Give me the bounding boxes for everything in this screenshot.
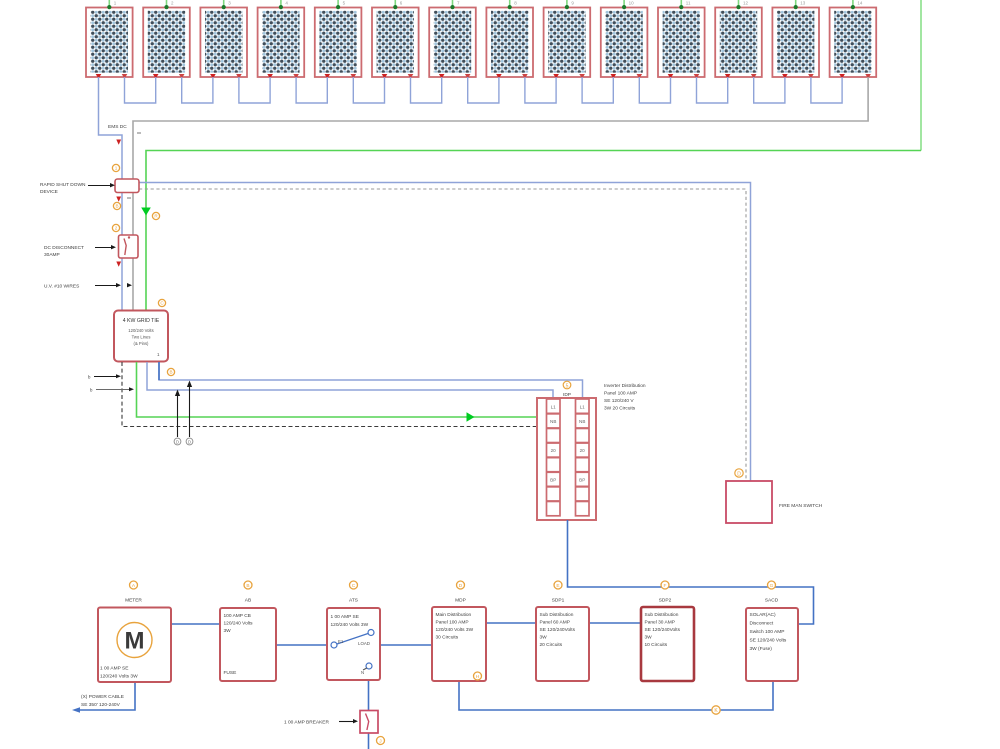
svg-text:(X) POWER CABLE: (X) POWER CABLE xyxy=(81,694,124,700)
wire ATS to breaker xyxy=(368,680,370,749)
node B label above AB xyxy=(244,581,252,589)
node A label above METER xyxy=(130,581,138,589)
wire series link PV13-PV14 xyxy=(811,77,842,103)
ATS transfer switch symbol xyxy=(331,630,374,676)
red flow arrow down xyxy=(116,262,121,267)
black up arrow 1 xyxy=(175,390,180,438)
DC disconnect switch xyxy=(119,235,139,258)
label DC disconnect 30 amp xyxy=(44,245,116,258)
svg-text:2: 2 xyxy=(115,226,118,231)
svg-text:13: 13 xyxy=(800,1,806,6)
svg-text:3W (Fuse): 3W (Fuse) xyxy=(750,646,773,652)
inverter distribution panel IDP xyxy=(537,398,596,520)
svg-text:SE 350' 120-240V: SE 350' 120-240V xyxy=(81,702,121,708)
wire MDP to SDP1 xyxy=(486,622,536,624)
svg-text:AB: AB xyxy=(245,598,251,604)
svg-text:BP: BP xyxy=(550,477,556,482)
solar panel PV10 xyxy=(601,0,648,79)
svg-text:3: 3 xyxy=(228,1,231,6)
svg-text:Panel 60 AMP: Panel 60 AMP xyxy=(540,620,570,626)
svg-text:Sub Distribution: Sub Distribution xyxy=(540,612,574,618)
svg-text:9: 9 xyxy=(571,1,574,6)
node IDP circled xyxy=(563,381,571,389)
svg-text:100 AMP CB: 100 AMP CB xyxy=(224,613,251,619)
wire rapid-shutdown signal blue to fire man switch xyxy=(139,183,751,482)
svg-text:DEVICE: DEVICE xyxy=(40,189,58,195)
svg-text:7: 7 xyxy=(457,1,460,6)
wire ATS to MDP xyxy=(380,644,432,646)
svg-text:SOLAR(AC): SOLAR(AC) xyxy=(750,612,777,618)
label U.V. #10 wires xyxy=(44,283,132,290)
wire meter to AB xyxy=(171,623,220,625)
wire ground green riser top right xyxy=(920,0,922,151)
solar panel PV5 xyxy=(315,0,362,79)
svg-text:H: H xyxy=(476,674,480,680)
wire green ground inverter to IDP xyxy=(137,362,538,417)
polarity mark xyxy=(127,197,131,199)
svg-text:20: 20 xyxy=(580,448,586,453)
svg-text:E1: E1 xyxy=(338,639,344,644)
svg-text:1 00 AMP SE: 1 00 AMP SE xyxy=(100,666,128,672)
svg-text:L1: L1 xyxy=(551,404,557,409)
svg-text:1: 1 xyxy=(115,166,118,171)
node 1 above RSD xyxy=(112,164,119,171)
svg-text:8: 8 xyxy=(514,1,517,6)
svg-text:SE 120/240 Volts: SE 120/240 Volts xyxy=(750,638,787,644)
svg-text:4 KW GRID TIE: 4 KW GRID TIE xyxy=(123,318,160,324)
svg-text:U.V. #10 WIRES: U.V. #10 WIRES xyxy=(44,284,79,290)
svg-text:120/240 Volts 3W: 120/240 Volts 3W xyxy=(436,627,474,633)
wire MDP to SACD bottom xyxy=(459,681,773,710)
svg-text:120/240 Volts: 120/240 Volts xyxy=(128,328,153,333)
node F label above SDP2 xyxy=(661,581,669,589)
svg-text:(& Pins): (& Pins) xyxy=(134,341,149,346)
svg-text:20 Circuits: 20 Circuits xyxy=(540,642,563,648)
node G label above SACD xyxy=(768,581,776,589)
wire series link PV4-PV5 xyxy=(296,77,327,103)
svg-text:SACD: SACD xyxy=(765,598,779,604)
svg-text:E: E xyxy=(556,583,559,589)
svg-text:IDP: IDP xyxy=(563,392,571,398)
svg-text:D: D xyxy=(459,583,463,589)
svg-text:B: B xyxy=(169,370,172,375)
svg-text:LOAD: LOAD xyxy=(358,641,370,646)
svg-text:120/240 Volts 3W: 120/240 Volts 3W xyxy=(100,674,138,680)
svg-text:10: 10 xyxy=(629,1,635,6)
svg-text:ATS: ATS xyxy=(349,598,358,604)
svg-text:30 Circuits: 30 Circuits xyxy=(436,635,459,641)
svg-text:3W: 3W xyxy=(645,635,653,641)
svg-text:D: D xyxy=(176,440,179,445)
node B below RSD xyxy=(113,202,120,209)
svg-text:Inverter Distribution: Inverter Distribution xyxy=(604,383,646,389)
svg-text:DC DISCONNECT: DC DISCONNECT xyxy=(44,245,84,251)
node B right of inverter output xyxy=(167,368,174,375)
svg-text:Sub Distribution: Sub Distribution xyxy=(645,612,679,618)
wire series link PV12-PV13 xyxy=(754,77,785,103)
svg-text:11: 11 xyxy=(686,1,691,6)
svg-text:Panel 30 AMP: Panel 30 AMP xyxy=(645,620,675,626)
svg-text:30AMP: 30AMP xyxy=(44,252,60,258)
svg-text:14: 14 xyxy=(857,1,863,6)
wire meter service entrance xyxy=(78,682,135,710)
svg-text:Switch 100 AMP: Switch 100 AMP xyxy=(750,629,785,635)
svg-text:M: M xyxy=(125,628,145,655)
svg-text:SDP1: SDP1 xyxy=(552,598,565,604)
solar panel PV9 xyxy=(544,0,591,79)
wire series link PV9-PV10 xyxy=(582,77,613,103)
black up arrow 2 xyxy=(187,381,192,438)
svg-text:SE 120/240 V: SE 120/240 V xyxy=(604,398,634,404)
label 100 amp breaker xyxy=(284,719,358,726)
label IDP description xyxy=(604,383,646,412)
svg-text:Two Lines: Two Lines xyxy=(132,335,151,340)
svg-text:b: b xyxy=(90,388,93,393)
wire AB to ATS xyxy=(276,644,327,646)
label L1 pointer xyxy=(88,374,121,379)
svg-text:MDP: MDP xyxy=(455,598,466,604)
node inside MDP xyxy=(474,672,482,680)
label power cable xyxy=(81,694,124,708)
MDP box xyxy=(432,607,486,681)
label L2 pointer xyxy=(90,387,134,392)
svg-text:EMS DC: EMS DC xyxy=(108,124,127,130)
svg-text:F: F xyxy=(664,583,667,589)
svg-text:C: C xyxy=(352,583,356,589)
solar panel PV2 xyxy=(143,0,190,79)
svg-text:Disconnect: Disconnect xyxy=(750,621,774,627)
wire dashed DC bonding inverter to IDP xyxy=(122,362,536,427)
SDP2 box xyxy=(641,607,694,681)
svg-text:B: B xyxy=(115,204,118,209)
wire RSD to DC disconnect to inverter xyxy=(121,192,123,311)
node R right of green arrow xyxy=(152,212,159,219)
meter M symbol xyxy=(117,623,152,658)
svg-text:1: 1 xyxy=(114,1,117,6)
solar panel PV6 xyxy=(372,0,419,79)
svg-text:BP: BP xyxy=(579,477,585,482)
inverter 4 KW GRID TIE xyxy=(114,311,168,362)
svg-text:RAPID SHUT DOWN: RAPID SHUT DOWN xyxy=(40,182,86,188)
solar panel PV11 xyxy=(658,0,705,79)
svg-text:D: D xyxy=(188,440,191,445)
solar panel PV14 xyxy=(830,0,877,79)
wire AC L1 inverter to IDP xyxy=(147,362,553,398)
svg-text:120/240 Volts: 120/240 Volts xyxy=(224,621,254,627)
wire series link PV8-PV9 xyxy=(525,77,556,103)
svg-text:G: G xyxy=(770,583,774,589)
wire ground green to inverter xyxy=(146,151,921,312)
wire DC positive from PV1 to rapid shutdown xyxy=(99,77,123,179)
node label under arrow 2 xyxy=(186,438,193,445)
svg-text:10 Circuits: 10 Circuits xyxy=(645,642,668,648)
wire rapid-shutdown dashed gray to fire man switch xyxy=(139,189,746,481)
wire series link PV5-PV6 xyxy=(353,77,384,103)
solar panel PV3 xyxy=(200,0,247,79)
green flow arrow right xyxy=(467,412,475,422)
red flow arrow down xyxy=(116,140,121,145)
wire series link PV3-PV4 xyxy=(239,77,270,103)
wire AC L2 inverter to IDP xyxy=(159,362,583,398)
ATS box xyxy=(327,608,380,680)
wire series link PV11-PV12 xyxy=(697,77,728,103)
fire man switch xyxy=(726,481,772,523)
svg-text:N: N xyxy=(361,670,364,675)
wire EMS DC gray from PV14 to inverter xyxy=(133,77,868,311)
solar panel PV12 xyxy=(715,0,762,79)
wire SDP1 to SDP2 xyxy=(589,622,641,624)
svg-text:Main Distribution: Main Distribution xyxy=(436,612,472,618)
node C label above ATS xyxy=(350,581,358,589)
svg-text:SE 120/240Volts: SE 120/240Volts xyxy=(645,627,681,633)
svg-text:2: 2 xyxy=(171,1,174,6)
SACD box xyxy=(746,608,798,681)
svg-text:6: 6 xyxy=(400,1,403,6)
svg-text:b: b xyxy=(88,375,91,380)
solar panel PV7 xyxy=(429,0,476,79)
svg-text:4: 4 xyxy=(285,1,288,6)
red flow arrow down xyxy=(116,197,121,202)
svg-text:FUSE: FUSE xyxy=(224,670,237,676)
svg-text:D: D xyxy=(737,471,741,477)
svg-text:12: 12 xyxy=(743,1,749,6)
svg-text:5: 5 xyxy=(343,1,346,6)
svg-text:SE 120/240Volts: SE 120/240Volts xyxy=(540,627,576,633)
wire series link PV1-PV2 xyxy=(125,77,156,103)
svg-text:1 00 AMP SE: 1 00 AMP SE xyxy=(331,614,359,620)
svg-text:1 00 AMP BREAKER: 1 00 AMP BREAKER xyxy=(284,720,330,726)
svg-text:B: B xyxy=(246,583,249,589)
solar panel PV8 xyxy=(486,0,533,79)
svg-text:3W: 3W xyxy=(224,628,232,634)
node label under arrow 1 xyxy=(174,438,181,445)
solar panel PV4 xyxy=(258,0,305,79)
rapid shutdown device xyxy=(115,179,139,193)
node on bottom wire xyxy=(712,706,720,714)
svg-text:3W 20 Circuits: 3W 20 Circuits xyxy=(604,406,636,412)
node C above inverter xyxy=(158,299,165,306)
svg-text:120/240 Volts 3W: 120/240 Volts 3W xyxy=(331,622,369,628)
breaker 100 AMP under ATS xyxy=(360,711,378,734)
label rapid shut down device xyxy=(40,182,115,195)
node D label above MDP xyxy=(457,581,465,589)
solar panel PV1 xyxy=(86,0,133,79)
svg-text:FIRE MAN SWITCH: FIRE MAN SWITCH xyxy=(779,503,823,509)
node below breaker xyxy=(377,737,385,745)
wire series link PV10-PV11 xyxy=(639,77,670,103)
svg-text:Panel 100 AMP: Panel 100 AMP xyxy=(604,391,637,397)
svg-text:3W: 3W xyxy=(540,635,548,641)
polarity mark minus xyxy=(137,132,141,134)
node E label above SDP1 xyxy=(554,581,562,589)
svg-text:5: 5 xyxy=(566,383,569,389)
METER box xyxy=(98,608,171,683)
svg-text:NB: NB xyxy=(579,419,585,424)
AB box xyxy=(220,608,276,681)
svg-text:Panel 100 AMP: Panel 100 AMP xyxy=(436,620,469,626)
svg-text:SDP2: SDP2 xyxy=(659,598,672,604)
svg-text:NB: NB xyxy=(550,419,556,424)
wire IDP to SACD xyxy=(568,520,814,624)
wire series link PV6-PV7 xyxy=(411,77,442,103)
wire series link PV2-PV3 xyxy=(182,77,213,103)
svg-text:20: 20 xyxy=(551,448,557,453)
solar panel PV13 xyxy=(772,0,819,79)
svg-text:METER: METER xyxy=(125,598,142,604)
svg-text:L1: L1 xyxy=(580,404,586,409)
node circled near fire switch xyxy=(735,469,743,478)
node 2 above DC disconnect xyxy=(112,224,119,231)
green flow arrow down xyxy=(141,208,151,216)
wire series link PV7-PV8 xyxy=(468,77,499,103)
meter rating text xyxy=(100,666,138,680)
SDP1 box xyxy=(536,607,589,681)
